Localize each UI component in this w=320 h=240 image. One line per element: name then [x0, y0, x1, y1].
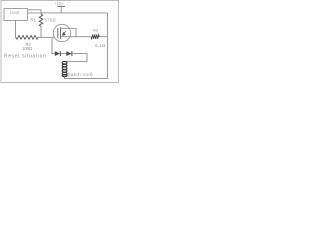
- drain lead: [61, 27, 76, 29]
- transistor Q1 (MOSFET in circle): [53, 24, 70, 41]
- wire drain-source join: [70, 28, 76, 36]
- wire to sense resistor: [76, 36, 91, 38]
- wire D1 to D2: [60, 53, 66, 55]
- svg-text:R3: R3: [93, 27, 99, 32]
- resistor R1 (vertical zigzag): [39, 14, 43, 26]
- wire R1 bottom to gate node: [40, 26, 42, 37]
- IC U1 (microcontroller box): [4, 9, 28, 21]
- svg-text:100Ω: 100Ω: [22, 46, 32, 51]
- resistor R2 (horizontal zigzag): [16, 35, 39, 39]
- gate bar: [57, 28, 59, 38]
- svg-text:(latch coil): (latch coil): [68, 72, 94, 78]
- wire gate node to transistor: [38, 36, 54, 38]
- supply +12V symbol: [57, 5, 65, 7]
- border frame: [1, 1, 119, 83]
- source lead with arrow: [61, 36, 71, 38]
- channel bar: [60, 27, 62, 39]
- wire pin1 to R1 top: [28, 10, 41, 14]
- inductor L1 (latch coil): [62, 62, 67, 77]
- wire IC bottom pin to R2: [15, 21, 17, 38]
- diode D1: [55, 51, 60, 56]
- wire +V rail (pin2 to right side): [28, 12, 108, 14]
- diode D2: [66, 51, 71, 56]
- wire R3 to right rail: [99, 36, 107, 38]
- wire coil bottom to right rail: [65, 76, 108, 78]
- wire gate node down to diodes: [52, 37, 55, 53]
- wire D2 to corner: [65, 54, 88, 62]
- svg-text:375Ω: 375Ω: [44, 18, 56, 23]
- svg-text:+12V: +12V: [55, 2, 64, 6]
- svg-text:R1: R1: [31, 18, 37, 23]
- svg-text:Reset situation: Reset situation: [4, 53, 46, 59]
- wire right rail down: [107, 13, 109, 79]
- resistor R3 (dense zigzag): [91, 35, 99, 39]
- svg-text:HC05: HC05: [10, 11, 19, 15]
- svg-text:0.1Ω: 0.1Ω: [95, 43, 106, 48]
